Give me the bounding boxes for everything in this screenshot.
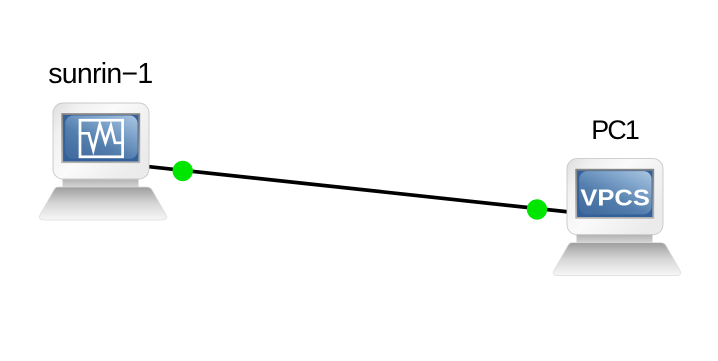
screen blue xyxy=(577,171,652,217)
label PC1 xyxy=(591,117,638,144)
waveform trace xyxy=(79,124,124,150)
neck xyxy=(577,232,653,243)
status dot left (green, sunrin-1 side) xyxy=(173,161,193,181)
computer icon PC1 xyxy=(553,159,680,276)
neck xyxy=(63,176,139,187)
computer icon sunrin-1 xyxy=(39,103,166,220)
base trapezoid xyxy=(39,187,166,220)
base trapezoid xyxy=(553,243,680,276)
monitor shell xyxy=(53,103,149,179)
screen blue xyxy=(63,115,138,161)
status dot right (green, PC1 side) xyxy=(527,199,547,219)
label sunrin-1 xyxy=(48,60,152,89)
screen bezel xyxy=(61,113,140,163)
screen bezel xyxy=(575,169,654,219)
waveform rect xyxy=(80,120,123,157)
wire: link from sunrin-1 to PC1 xyxy=(101,162,616,218)
monitor shell xyxy=(567,159,663,235)
svg-text:VPCS: VPCS xyxy=(580,185,650,211)
